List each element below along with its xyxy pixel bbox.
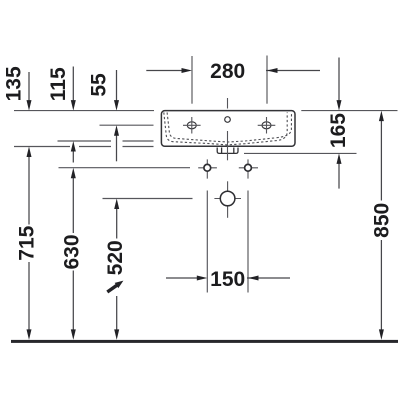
svg-text:630: 630: [61, 234, 84, 269]
tap hole right crosshair: [258, 117, 276, 134]
drain fitting inner right line: [233, 148, 235, 154]
150 dim left extension line: [206, 191, 208, 293]
svg-text:135: 135: [2, 66, 25, 101]
715 dim line (upper segment): [28, 156, 30, 225]
sink bottom edge extension line segment 2: [79, 146, 111, 148]
280 dim left extension line: [191, 56, 193, 104]
basin depth level extension line (115 dim) right part: [123, 140, 154, 142]
55 dim up-arrow tail: [116, 134, 118, 161]
fixing hole left circle: [204, 164, 211, 171]
715 down arrowhead at floor: [27, 329, 32, 340]
sink bottom edge extension line segment 3: [123, 146, 154, 148]
svg-text:55: 55: [87, 73, 110, 97]
150 dim arrowhead right-pointing: [197, 276, 208, 281]
520 dim line (lower segment): [116, 296, 118, 331]
280 dim line right tail: [266, 70, 320, 72]
55 dim down-arrow tail: [116, 70, 118, 102]
fixing hole right crosshair: [239, 159, 258, 178]
drain fitting outer profile: [217, 148, 238, 154]
115 dim down-arrow tail: [72, 67, 74, 102]
715 dim line (lower segment): [28, 262, 30, 331]
overflow mark circle: [225, 117, 231, 123]
svg-text:715: 715: [15, 225, 38, 260]
165 dim up-arrow tail: [338, 162, 340, 188]
850 dim line (upper segment): [380, 120, 382, 201]
850 up arrowhead: [379, 111, 384, 122]
150 dim right extension line: [247, 191, 249, 293]
drain centerline through fitting: [227, 131, 229, 160]
115 up arrowhead: [71, 141, 76, 152]
165 dim down-arrow tail: [338, 58, 340, 102]
basin interior hidden contour (inner dashed line): [167, 112, 291, 142]
rim level extension line left: [14, 110, 154, 112]
150 dim line left tail: [166, 277, 198, 279]
165 down arrowhead: [337, 100, 342, 111]
280 dim line left tail: [146, 70, 183, 72]
150 dim arrowhead left-pointing: [248, 276, 259, 281]
fixing hole right circle: [245, 164, 252, 171]
520 down arrowhead at floor: [114, 329, 119, 340]
55 down arrowhead: [114, 100, 119, 111]
150 dim line right tail: [247, 277, 290, 279]
520 dim line (upper segment): [116, 207, 118, 239]
basin interior hidden contour (outer dashed line): [164, 112, 287, 144]
sink bottom edge extension line (135/715 dim) segment 1: [14, 146, 70, 148]
135 dim down-arrow tail: [28, 72, 30, 102]
svg-text:150: 150: [210, 268, 245, 291]
tap hole right (circle): [262, 122, 271, 129]
drain fitting bottom extension line (165 dim): [244, 152, 357, 154]
drain fitting inner left line: [221, 148, 223, 154]
waste pipe crosshair horizontal: [214, 198, 241, 200]
drain level extension line (520 dim): [103, 198, 193, 200]
waste pipe circle: [220, 191, 235, 206]
fixing hole left crosshair: [198, 159, 217, 178]
fixing holes level extension line (630 dim): [59, 167, 191, 169]
115 dim up-arrow tail: [72, 150, 74, 163]
svg-text:280: 280: [210, 60, 245, 83]
svg-text:165: 165: [327, 113, 350, 148]
280 dim arrowhead left-pointing: [267, 68, 278, 73]
630 dim line (lower segment): [72, 271, 74, 332]
tap hole left crosshair: [183, 117, 201, 134]
520 up arrowhead: [114, 199, 119, 210]
rim level extension line right: [301, 110, 397, 112]
washbasin body outline: [161, 111, 295, 147]
svg-text:520: 520: [104, 240, 127, 275]
waste pipe centerline vertical: [227, 181, 229, 218]
tap-hole level extension line (55 dim): [100, 124, 154, 126]
630 up arrowhead: [71, 168, 76, 179]
55 up arrowhead: [114, 125, 119, 136]
715 up arrowhead: [27, 147, 32, 158]
850 dim line (lower segment): [380, 240, 382, 331]
630 dim line (upper segment): [72, 177, 74, 233]
850 down arrowhead at floor: [379, 329, 384, 340]
135 down arrowhead: [27, 100, 32, 111]
630 down arrowhead at floor: [71, 329, 76, 340]
svg-text:850: 850: [371, 203, 394, 238]
tap hole left (circle): [187, 122, 196, 129]
svg-text:115: 115: [47, 67, 70, 101]
basin depth level extension line (115 dim) left part: [58, 140, 112, 142]
floor line: [11, 340, 398, 343]
280 dim right extension line: [266, 56, 268, 104]
drain centerline above rim: [227, 98, 229, 109]
165 up arrowhead: [337, 153, 342, 164]
520 leader arrow pointing NE: [106, 281, 123, 294]
280 dim arrowhead right-pointing: [182, 68, 193, 73]
115 down arrowhead: [71, 100, 76, 111]
